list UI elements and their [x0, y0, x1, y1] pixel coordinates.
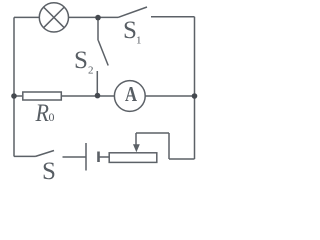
- wire R0 to node B: [62, 95, 97, 97]
- switch S blade: [36, 151, 55, 157]
- wire bottom-right to right vertical: [169, 158, 195, 160]
- wire left vertical: [13, 17, 15, 156]
- wire lamp to node A: [69, 16, 99, 18]
- wire node B to ammeter: [97, 95, 114, 97]
- svg-text:2: 2: [88, 65, 94, 77]
- wire bottom-left to switch S: [14, 155, 36, 157]
- rheostat RP body: [109, 153, 157, 163]
- svg-text:S: S: [123, 17, 137, 44]
- svg-text:1: 1: [136, 35, 142, 47]
- lamp L: [39, 3, 68, 32]
- rheostat slider arrowhead: [133, 144, 140, 152]
- switch S1 blade: [118, 7, 147, 17]
- wire node A to switch S1 pivot: [98, 16, 118, 18]
- resistor R0: [23, 92, 62, 100]
- node C junction dot: [192, 93, 198, 99]
- node B junction dot: [95, 93, 101, 99]
- wire corner down: [168, 133, 170, 159]
- wire slider to corner: [136, 132, 169, 134]
- wire top-left to lamp: [14, 16, 39, 18]
- svg-text:0: 0: [49, 110, 55, 124]
- wire S2 upper: node A down to blade pivot: [97, 17, 99, 40]
- switch S2 blade: [98, 41, 108, 66]
- node D junction dot: [11, 93, 17, 99]
- rheostat slider stem: [135, 133, 137, 146]
- wire S2 lower contact down to node B: [96, 71, 98, 96]
- wire node D to resistor R0: [14, 95, 22, 97]
- svg-text:R: R: [35, 100, 49, 127]
- wire ammeter to node C: [145, 95, 194, 97]
- battery BT short plate: [97, 152, 100, 163]
- svg-text:S: S: [74, 47, 88, 74]
- svg-text:A: A: [125, 82, 138, 106]
- wire right vertical: [194, 17, 196, 159]
- node A junction dot: [95, 15, 101, 21]
- wire switch S contact to battery: [63, 156, 87, 158]
- wire S1 right contact to top-right corner: [151, 16, 195, 18]
- svg-text:S: S: [42, 158, 56, 182]
- battery BT long plate: [85, 143, 87, 171]
- ammeter U1: [114, 81, 145, 112]
- wire battery to rheostat: [99, 156, 110, 158]
